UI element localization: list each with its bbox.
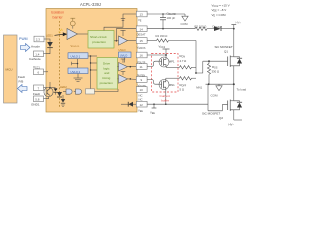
pin box DESAT (14) <box>136 26 147 36</box>
svg-text:10: 10 <box>140 88 144 92</box>
svg-text:NC: NC <box>139 98 143 102</box>
svg-text:MCU: MCU <box>6 68 13 72</box>
resistor RGS 330 ohm <box>207 61 219 84</box>
wire UVLO3 to buffer A <box>124 58 126 63</box>
svg-text:Fault: Fault <box>18 75 25 79</box>
source return wire <box>206 83 234 85</box>
wire fault pin to IC <box>44 87 48 89</box>
pin 1,4 box (Cathode) <box>34 51 44 57</box>
gate G2 <box>74 89 82 94</box>
svg-text:2,3: 2,3 <box>36 38 41 42</box>
svg-text:protection: protection <box>92 40 106 44</box>
comparator U1 <box>67 29 78 40</box>
wire GND1 pin to IC <box>44 98 47 100</box>
IC ACPL-339J body <box>46 9 137 113</box>
buffer U2 to VGMOS <box>119 36 128 45</box>
svg-text:buffer: buffer <box>161 98 169 102</box>
svg-text:Fault: Fault <box>33 92 40 96</box>
svg-text:and: and <box>104 71 109 75</box>
LED2 diode on barrier <box>57 92 62 97</box>
node Fault F/B <box>18 75 25 84</box>
short-circuit protection block <box>88 31 114 49</box>
svg-text:DESAT: DESAT <box>137 32 146 36</box>
reference tick on VE branch <box>121 19 125 21</box>
wire VOUTP to MP1 gate <box>147 61 159 66</box>
UVLO2 block <box>68 68 88 74</box>
svg-text:protection: protection <box>100 81 114 85</box>
svg-text:LED1: LED1 <box>46 34 53 38</box>
capacitor CBLANK <box>160 11 177 28</box>
UVLO3 block <box>119 52 132 58</box>
ground COM 1 <box>181 14 189 26</box>
svg-text:UVLO: UVLO <box>120 53 128 57</box>
supply VEE tick <box>150 104 156 115</box>
svg-text:COM: COM <box>181 22 189 26</box>
diode D4 at barrier bottom <box>61 95 65 107</box>
svg-text:PWM: PWM <box>19 37 28 41</box>
transistor MN1 <box>159 78 175 104</box>
wire cathode pin to IC <box>44 53 47 55</box>
current buffer label <box>160 94 170 103</box>
svg-text:100 pF: 100 pF <box>167 16 176 20</box>
buffer A (VOUTP) <box>118 63 137 72</box>
wire VE pin to COM <box>147 13 185 15</box>
svg-text:R4 330 Ω: R4 330 Ω <box>156 34 168 38</box>
svg-text:To load: To load <box>237 87 247 91</box>
resistor ROFF 5 ohm <box>180 77 197 92</box>
svg-text:Isolation: Isolation <box>51 11 64 15</box>
wire UVLO1 to drive logic <box>88 55 97 89</box>
svg-text:MN1: MN1 <box>169 83 175 87</box>
supply tick above buffer A <box>121 59 126 63</box>
svg-text:HV–: HV– <box>229 122 235 126</box>
svg-text:Current: Current <box>160 94 170 98</box>
supply VCC2 tick <box>147 45 169 58</box>
wire gates to drive logic <box>95 89 119 92</box>
PWM block arrow <box>21 44 31 52</box>
wire MN1 to ROFF <box>166 77 180 79</box>
SiC MOSFET Q1 <box>228 29 242 84</box>
resistor R2 100 ohm <box>195 24 215 30</box>
svg-text:Q2: Q2 <box>219 116 223 120</box>
pin box VCC2 (16) <box>136 52 147 58</box>
svg-text:5 Ω: 5 Ω <box>180 87 184 91</box>
gate node wires <box>195 60 227 74</box>
svg-text:14: 14 <box>140 27 144 31</box>
svg-text:Q1: Q1 <box>224 50 228 54</box>
svg-text:1,4: 1,4 <box>35 52 40 56</box>
svg-text:ACPL-339J: ACPL-339J <box>80 2 101 7</box>
phase node To load <box>233 83 247 91</box>
wire MP1 to RON <box>166 66 180 68</box>
current buffer dashed box <box>152 54 179 93</box>
pin 2,3 box (Anode) <box>34 36 44 42</box>
wire comparator output to protection block <box>78 33 89 35</box>
wire VCC1 pin to IC <box>44 71 49 73</box>
ground below UVLO2 <box>74 74 83 82</box>
wire VGMOS net <box>147 40 156 42</box>
svg-text:11: 11 <box>140 65 143 69</box>
wire Q2 gate tie <box>208 105 227 111</box>
MCU block <box>4 35 18 103</box>
svg-text:barrier: barrier <box>53 16 64 20</box>
svg-text:15: 15 <box>140 39 144 43</box>
node between UVLO blocks <box>72 59 79 68</box>
svg-text:Cathode: Cathode <box>29 57 41 61</box>
resistor R4 330 ohm <box>156 34 197 42</box>
pin box NC (10) <box>136 87 147 98</box>
light sparkle <box>59 29 63 33</box>
isolation barrier dashed line <box>51 11 64 108</box>
svg-text:Anode: Anode <box>31 45 40 49</box>
svg-text:5,8: 5,8 <box>35 97 40 101</box>
clamp diode D2 <box>50 88 57 95</box>
supply tick above buffer U2 <box>120 30 125 36</box>
wire protection right to DESAT pin <box>114 29 137 42</box>
svg-text:13: 13 <box>140 13 144 17</box>
SiC MOSFET Q1 labels <box>215 45 233 54</box>
pin box VGMOS (15) <box>136 38 147 50</box>
svg-text:MN1: MN1 <box>196 86 202 90</box>
svg-text:HV+: HV+ <box>236 21 242 25</box>
light arrow LED1 to detector <box>55 32 68 36</box>
diode DDESAT <box>213 24 235 31</box>
svg-text:timing: timing <box>102 76 110 80</box>
pin 5,8 box (GND1) <box>34 96 44 102</box>
resistor RON 4.7 ohm <box>180 54 197 69</box>
phototransistor Q3 <box>44 82 53 99</box>
pin box VOUTP (11) <box>136 60 147 69</box>
wire protection top to VE pin <box>104 14 137 31</box>
supply tick above buffer B <box>121 72 126 75</box>
wire anode pin to IC <box>44 38 46 40</box>
svg-text:Short-circuit: Short-circuit <box>90 35 107 39</box>
supply note text <box>212 4 230 18</box>
wire VOUTN to MN1 gate <box>147 80 159 85</box>
svg-text:4.7 Ω: 4.7 Ω <box>180 59 187 63</box>
svg-text:F/B: F/B <box>19 80 24 84</box>
svg-text:330 Ω: 330 Ω <box>212 70 220 74</box>
svg-text:Drive: Drive <box>103 61 110 65</box>
svg-text:GND1: GND1 <box>31 103 40 107</box>
logic block small <box>86 89 95 94</box>
diode D3 at VEE pin <box>121 102 137 107</box>
svg-text:UVLO 2: UVLO 2 <box>71 70 81 74</box>
wire VGMOS to gate node <box>195 41 197 74</box>
VEE rail <box>147 103 208 105</box>
SiC MOSFET Q2 <box>228 84 242 120</box>
svg-text:SiC MOSFET: SiC MOSFET <box>202 111 220 115</box>
pin 7 box (Fault) <box>34 85 44 91</box>
drive logic and timing protection block <box>97 58 118 90</box>
svg-text:UVLO 1: UVLO 1 <box>71 55 81 59</box>
current source above comparator <box>70 18 75 28</box>
svg-text:12: 12 <box>140 103 144 107</box>
fault block arrow <box>18 85 28 93</box>
svg-text:MP1: MP1 <box>169 59 175 63</box>
transistor MP1 <box>159 57 175 67</box>
LED1 diode <box>46 39 53 54</box>
svg-text:UVLO: UVLO <box>119 48 126 52</box>
svg-text:COM: COM <box>211 94 219 98</box>
pin box VEE (12) <box>136 98 147 114</box>
buffer B (VOUTN) <box>118 75 137 84</box>
pin box VE (13) <box>136 11 147 22</box>
svg-text:LED2: LED2 <box>60 85 67 89</box>
HV+ supply stub <box>231 21 241 29</box>
pin box VOUTN (9) <box>136 73 147 88</box>
wire DESAT net <box>147 28 195 30</box>
gate G1 <box>63 89 72 94</box>
pin 6 box (VCC1) <box>34 69 44 75</box>
SiC MOSFET Q2 labels <box>202 111 223 120</box>
svg-text:16: 16 <box>140 54 144 58</box>
svg-text:VE = COM: VE = COM <box>212 13 227 17</box>
svg-text:SiC MOSFET: SiC MOSFET <box>215 45 233 49</box>
ground COM 2 <box>211 84 223 97</box>
wire buffer U2 to VGMOS pin <box>128 40 137 42</box>
UVLO1 block <box>68 53 88 59</box>
HV- stub <box>229 120 243 126</box>
svg-text:logic: logic <box>103 66 110 70</box>
wire COM-VEE vertical <box>207 84 209 111</box>
light arrow LED2 to phototransistor <box>55 89 58 91</box>
